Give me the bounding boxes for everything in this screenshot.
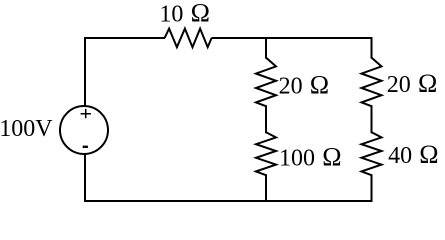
wire: top horizontal left segment	[84, 37, 165, 39]
voltage source plus mark	[81, 109, 91, 118]
wire: left vertical from source to bottom corner	[84, 154, 86, 202]
svg-text:20 Ω: 20 Ω	[387, 69, 438, 98]
wire: left vertical from top corner to source	[84, 37, 86, 106]
resistor R4 20 ohm right vertical zigzag	[362, 58, 382, 107]
wire: middle branch bottom lead	[265, 174, 267, 202]
wire: middle branch middle lead	[265, 105, 267, 133]
svg-text:10 Ω: 10 Ω	[159, 0, 210, 27]
wire: right branch top lead	[371, 37, 373, 59]
svg-text:100 Ω: 100 Ω	[279, 142, 342, 171]
resistor R5 40 ohm right vertical zigzag	[362, 132, 382, 175]
wire: bottom horizontal	[84, 200, 373, 202]
voltage source minus mark	[83, 146, 88, 148]
wire: right branch bottom lead	[371, 174, 373, 202]
svg-text:40 Ω: 40 Ω	[388, 140, 439, 169]
svg-text:20 Ω: 20 Ω	[279, 71, 330, 100]
resistor R2 20 ohm middle vertical zigzag	[256, 58, 276, 107]
wire: right branch middle lead	[371, 105, 373, 133]
svg-text:100V: 100V	[0, 116, 53, 142]
resistor R1 10 ohm horizontal zigzag	[165, 29, 212, 48]
wire: top horizontal right segment	[212, 37, 373, 39]
resistor R3 100 ohm middle vertical zigzag	[256, 132, 276, 175]
wire: middle branch top lead	[265, 37, 267, 59]
voltage source V1 circle	[60, 106, 108, 154]
